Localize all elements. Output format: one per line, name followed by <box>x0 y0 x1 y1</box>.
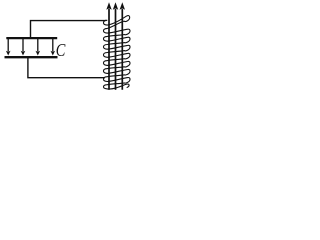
wire <box>31 21 106 38</box>
field arrow 3 (capacitor) <box>36 39 41 56</box>
flux line 3 <box>120 2 125 90</box>
svg-text:C: C <box>56 40 67 61</box>
wire <box>28 58 105 78</box>
field arrow 2 (capacitor) <box>21 39 26 56</box>
flux line 2 <box>113 2 118 90</box>
flux line 1 <box>106 2 111 90</box>
field arrow 1 (capacitor) <box>6 39 11 56</box>
capacitor C top plate <box>6 37 57 39</box>
field arrow 4 (capacitor) <box>51 39 56 56</box>
inductor L coil <box>103 16 130 89</box>
capacitor C bottom plate <box>5 56 58 58</box>
